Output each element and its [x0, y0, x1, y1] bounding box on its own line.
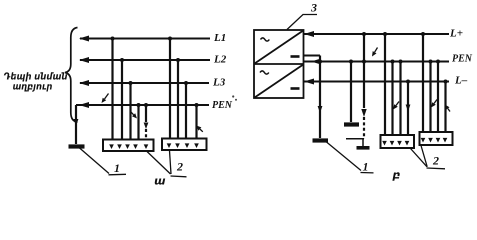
- load box 1: [103, 140, 154, 152]
- svg-text:1: 1: [114, 161, 120, 175]
- stub converter midpoint: [304, 55, 321, 57]
- sublabel b: [392, 172, 399, 181]
- node 385,34: [383, 32, 387, 36]
- wire L- to box1R: [407, 82, 409, 136]
- node L3-load2: [184, 81, 188, 85]
- ground electrode 3: [357, 146, 370, 150]
- wire PEN: [76, 104, 209, 106]
- wire L+ to box2R: [422, 34, 424, 133]
- mid earth conductor: [363, 34, 365, 108]
- AC mark cell2: [260, 71, 269, 74]
- terminal arrows box2: [167, 143, 172, 148]
- arrow to source L3: [79, 80, 89, 86]
- arrow to source L1: [79, 36, 89, 42]
- node L2-load1: [120, 58, 124, 62]
- load box 2R: [420, 132, 453, 145]
- leader box2 to label 2: [170, 151, 172, 175]
- wire L1 drop to box1: [111, 39, 113, 141]
- node Va: [349, 60, 353, 64]
- load box 1R: [381, 135, 415, 148]
- ground electrode 1: [69, 144, 85, 148]
- node L1-load2: [168, 37, 172, 41]
- AC mark cell1: [261, 38, 270, 41]
- sublabel a: [155, 179, 165, 185]
- DC mark cell1: [291, 55, 300, 58]
- node Vb L+: [362, 32, 366, 36]
- node PEN-load2: [195, 103, 199, 107]
- arrow into converter L+: [304, 31, 314, 37]
- wire L2 drop to box1: [121, 60, 123, 140]
- svg-text:L2: L2: [213, 54, 227, 66]
- wire PEN to box1R b: [399, 62, 401, 136]
- wire PEN to box2R a: [429, 62, 431, 133]
- wire L2: [80, 59, 210, 61]
- node 438,61.5: [436, 60, 440, 64]
- arrow on PEN dc: [311, 59, 321, 65]
- wire L+: [304, 33, 450, 35]
- text to supply source line1: [4, 72, 67, 81]
- leader to label 3: [287, 15, 317, 30]
- node 400.5,61.5: [399, 60, 403, 64]
- earthing conductor at source: [319, 56, 321, 139]
- node 423,34: [421, 32, 425, 36]
- terminal arrows box2R: [421, 138, 426, 143]
- wire PEN drop N to box1: [137, 105, 139, 140]
- PEN earth branch 2: [350, 62, 352, 123]
- svg-text:2: 2: [176, 160, 183, 174]
- underline label 2: [171, 175, 187, 178]
- wire PEN to box1R a: [391, 62, 393, 136]
- wire L3 drop to box2: [185, 83, 187, 139]
- svg-text:2: 2: [432, 154, 439, 168]
- earth link horizontal: [346, 138, 364, 140]
- load box 2: [162, 139, 207, 151]
- wire L1 drop to box2: [169, 39, 171, 140]
- wire L+ to box1R: [384, 34, 386, 136]
- svg-text:L+: L+: [449, 28, 463, 40]
- svg-text:L1: L1: [213, 32, 226, 44]
- wire PEN to earth: [75, 105, 77, 144]
- node 392.5,61.5: [391, 60, 395, 64]
- svg-text:L–: L–: [454, 75, 468, 87]
- svg-text:L3: L3: [212, 77, 226, 89]
- wire L3 drop to box1: [129, 83, 131, 140]
- wire L1: [80, 38, 210, 40]
- ground electrode source: [313, 138, 329, 142]
- wire L-: [304, 81, 450, 83]
- brace: [65, 28, 78, 123]
- wire PEN drop PE to box1: [145, 105, 147, 122]
- svg-text:3: 3: [310, 1, 317, 15]
- speck: [232, 95, 234, 97]
- wire L2 drop to box2: [177, 60, 179, 139]
- node PEN-load1a: [137, 103, 141, 107]
- svg-text:1: 1: [363, 160, 369, 174]
- wire L3: [80, 82, 209, 84]
- node PEN earth: [318, 60, 322, 64]
- wire L- to box2R: [444, 82, 446, 133]
- node L1-load1: [111, 37, 115, 41]
- text to supply source line2: [13, 84, 52, 91]
- wire PEN drop to box2: [195, 105, 197, 139]
- leader box2R to label 2: [421, 146, 427, 167]
- arrow down on PE wire: [144, 123, 149, 130]
- wire PEN dc: [304, 61, 450, 63]
- node PEN-load1b: [144, 103, 148, 107]
- node L2-load2: [176, 58, 180, 62]
- leader box1R to label 2: [411, 149, 428, 167]
- DC mark cell2: [291, 87, 300, 90]
- flag arrow on wire 445: [448, 109, 450, 112]
- arrow to source L2: [79, 57, 89, 63]
- node Vb PEN: [362, 60, 366, 64]
- flag arrow on PEN dc: [375, 48, 378, 53]
- node 408,81.5: [406, 80, 410, 84]
- node 445.5,81.5: [444, 80, 448, 84]
- converter U1: [254, 30, 304, 98]
- arrow on wire 408: [406, 105, 411, 112]
- arrow mark on N wire: [130, 111, 134, 115]
- arrow mark on PEN wire of box2: [200, 129, 203, 132]
- ground electrode 2: [344, 122, 359, 126]
- leader to label 1 right: [327, 142, 362, 171]
- svg-text:PEN: PEN: [212, 100, 233, 111]
- arrow to source PEN: [79, 102, 89, 108]
- svg-text:PEN: PEN: [452, 54, 473, 65]
- arrow into converter L-: [304, 79, 314, 85]
- arrow on wire 430: [434, 100, 437, 104]
- arrow mark on PEN: [105, 94, 109, 100]
- wire PEN to box2R b: [437, 62, 439, 133]
- underline label 2 right: [427, 167, 446, 170]
- node 430.5,61.5: [429, 60, 433, 64]
- terminal arrows box1: [109, 144, 114, 149]
- node L3-load1: [129, 81, 133, 85]
- terminal arrows box1R: [382, 141, 387, 146]
- arrow on earthing conductor: [74, 119, 79, 126]
- leader to label 1: [79, 148, 109, 174]
- arrow on wire 392: [396, 102, 399, 106]
- leader box1 to label 2: [147, 152, 171, 175]
